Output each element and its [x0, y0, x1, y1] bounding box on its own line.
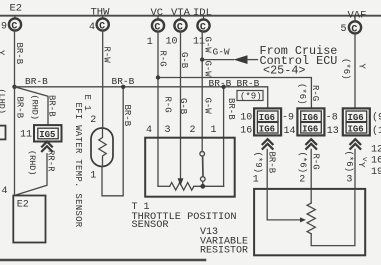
arrow from cruise control ECU	[234, 55, 248, 64]
wire TPS resistor to pin1	[194, 185, 224, 187]
component E2 box	[13, 196, 45, 243]
svg-text:C: C	[200, 22, 206, 33]
wire RHD down to E2	[17, 154, 48, 195]
svg-text:E2: E2	[17, 200, 29, 211]
svg-text:(RHD): (RHD)	[27, 150, 37, 176]
svg-text:9: 9	[1, 21, 7, 32]
svg-text:IG6: IG6	[348, 113, 364, 123]
svg-text:(*6): (*6)	[297, 152, 307, 174]
svg-text:BR-B: BR-B	[25, 76, 48, 87]
svg-text:16: 16	[371, 156, 381, 167]
svg-text:RESISTOR: RESISTOR	[200, 245, 248, 256]
wire upper rail R-G	[158, 78, 311, 109]
svg-text:(9: (9	[372, 112, 381, 124]
svg-text:R-G: R-G	[310, 85, 320, 101]
wire: top bus line	[0, 15, 381, 17]
svg-text:R-G: R-G	[163, 97, 173, 113]
switch IDL contact	[200, 152, 205, 189]
wire col3 to V13 pin3	[354, 149, 356, 189]
component V13 variable resistor box	[254, 189, 365, 255]
wire water temp sensor ground U-path	[102, 87, 123, 196]
svg-text:BR-B: BR-B	[14, 97, 24, 119]
svg-text:IG6: IG6	[259, 124, 275, 134]
svg-text:2: 2	[90, 115, 96, 126]
svg-text:RR-R: RR-R	[45, 150, 55, 172]
svg-text:R-G: R-G	[311, 154, 321, 170]
connector J/C column 3 IG6	[343, 108, 381, 137]
wire IDL drop G-W	[201, 31, 203, 151]
svg-text:-9: -9	[282, 113, 294, 124]
svg-text:THW: THW	[91, 7, 111, 19]
svg-text:(*6): (*6)	[344, 151, 354, 173]
connector C at THW pin 4	[89, 16, 109, 34]
svg-text:Y: Y	[0, 50, 6, 56]
svg-text:16: 16	[240, 125, 252, 136]
svg-text:BR-B: BR-B	[267, 152, 277, 174]
arrow chevrons below col1	[263, 139, 273, 149]
node junction TPS pin1/rail	[221, 85, 225, 89]
svg-text:IG6: IG6	[302, 124, 318, 134]
svg-text:Y: Y	[357, 64, 367, 70]
svg-text:(1: (1	[372, 125, 381, 137]
wire TPS pin1 BR-B	[223, 87, 225, 187]
svg-text:2: 2	[299, 175, 305, 186]
svg-text:G-W: G-W	[203, 98, 213, 115]
component E1 EFI water temp sensor	[91, 128, 113, 167]
svg-text:SENSOR: SENSOR	[132, 219, 169, 231]
arrow chevrons below IG5	[42, 142, 52, 152]
resistor TPS track	[170, 183, 194, 191]
wire col1 to V13 pin1	[266, 149, 268, 189]
svg-text:4: 4	[146, 125, 152, 136]
svg-text:12: 12	[371, 144, 381, 155]
wire col2 to V13 resistor	[310, 149, 312, 203]
svg-text:3: 3	[165, 125, 171, 136]
node junction E2/rail	[12, 85, 16, 89]
svg-text:G-W: G-W	[213, 47, 230, 58]
node junction VC/rail	[156, 75, 160, 79]
svg-text:VAF: VAF	[348, 10, 367, 22]
connector C at VAF pin 5	[341, 16, 362, 36]
svg-text:19: 19	[371, 167, 381, 178]
svg-text:EFI WATER TEMP. SENSOR: EFI WATER TEMP. SENSOR	[73, 103, 83, 228]
node junction on IDL wire	[200, 57, 204, 61]
svg-text:(RHD): (RHD)	[29, 95, 39, 121]
arrow chevrons below col3	[350, 139, 360, 149]
svg-text:G-W: G-W	[203, 37, 213, 54]
wire V13 pin1 to wiper	[267, 189, 300, 220]
connector C at IDL pin 11	[193, 16, 210, 48]
svg-text:BR-B: BR-B	[237, 78, 260, 89]
svg-text:1: 1	[90, 171, 96, 182]
svg-text:(*6): (*6)	[341, 58, 351, 80]
label boxed (*9)	[237, 91, 263, 102]
svg-text:G-B: G-B	[179, 52, 189, 69]
wire: bottom bus line	[1, 259, 205, 262]
connector J/C column 1 IG6	[240, 108, 295, 137]
svg-text:R-W: R-W	[101, 47, 111, 64]
wiper arrow V13	[300, 217, 306, 222]
wire V13 resistor bottom to pin3	[311, 189, 355, 246]
svg-text:BR-B: BR-B	[209, 78, 232, 89]
wire THW drop R-W	[102, 30, 104, 128]
svg-text:-8: -8	[326, 113, 338, 124]
connector C at VTA pin 10	[166, 16, 187, 48]
svg-text:IG6: IG6	[302, 113, 318, 123]
svg-text:IG6: IG6	[348, 124, 364, 134]
svg-text:G-W: G-W	[203, 61, 213, 78]
connector C at E2 pin 9	[1, 16, 21, 33]
svg-text:E2: E2	[10, 3, 23, 15]
svg-text:10: 10	[166, 36, 178, 47]
svg-text:(*9): (*9)	[240, 92, 262, 102]
svg-text:1: 1	[211, 125, 217, 136]
wire E2 drop BR-B	[14, 30, 16, 195]
svg-text:13: 13	[327, 126, 339, 137]
svg-text:R-G: R-G	[158, 51, 168, 67]
wire RHD branch diagonal	[15, 87, 49, 125]
svg-text:1: 1	[253, 175, 259, 186]
resistor V13 track	[307, 203, 315, 234]
svg-text:2: 2	[190, 125, 196, 136]
svg-text:3: 3	[346, 175, 352, 186]
wire lower rail BR-B	[15, 87, 268, 109]
svg-text:(*6): (*6)	[297, 83, 307, 105]
connector IG5 fragment at left edge	[0, 126, 6, 140]
connector J/C column 2 IG6	[297, 108, 338, 137]
wire VAF drop Y	[354, 33, 356, 108]
svg-text:BR-B: BR-B	[47, 95, 57, 117]
svg-text:4: 4	[2, 186, 8, 197]
svg-text:<: <	[363, 156, 368, 165]
connector C at VC pin 1	[147, 16, 164, 48]
svg-text:IG5: IG5	[39, 130, 55, 140]
wire TPS pin4 to resistor	[158, 185, 170, 187]
connector J/C IG5	[34, 125, 62, 141]
node junction sensor/rail	[121, 85, 125, 89]
svg-text:5: 5	[341, 24, 347, 35]
svg-text:BR-B: BR-B	[122, 105, 132, 127]
component T1 throttle position sensor box	[145, 138, 235, 197]
wiper arrow TPS pin3	[178, 179, 182, 185]
svg-text:<25-4>: <25-4>	[263, 64, 305, 78]
svg-text:G-B: G-B	[178, 98, 188, 115]
svg-text:IG6: IG6	[259, 113, 275, 123]
svg-text:11: 11	[20, 130, 32, 141]
svg-text:4: 4	[89, 22, 95, 33]
svg-text:1: 1	[147, 37, 153, 48]
svg-text:(LHD): (LHD)	[0, 89, 7, 115]
svg-text:(*9): (*9)	[253, 152, 263, 174]
svg-text:BR-B: BR-B	[14, 43, 24, 65]
svg-text:14: 14	[284, 126, 296, 137]
svg-text:10: 10	[240, 113, 252, 124]
wire branch to cruise control	[202, 59, 233, 61]
svg-text:VC: VC	[151, 7, 164, 19]
wire VTA drop G-B	[180, 31, 182, 179]
arrow chevrons below col2	[306, 139, 316, 149]
svg-text:BR-B: BR-B	[226, 98, 236, 120]
wire VC drop R-G	[157, 31, 159, 186]
svg-text:IDL: IDL	[193, 7, 212, 19]
